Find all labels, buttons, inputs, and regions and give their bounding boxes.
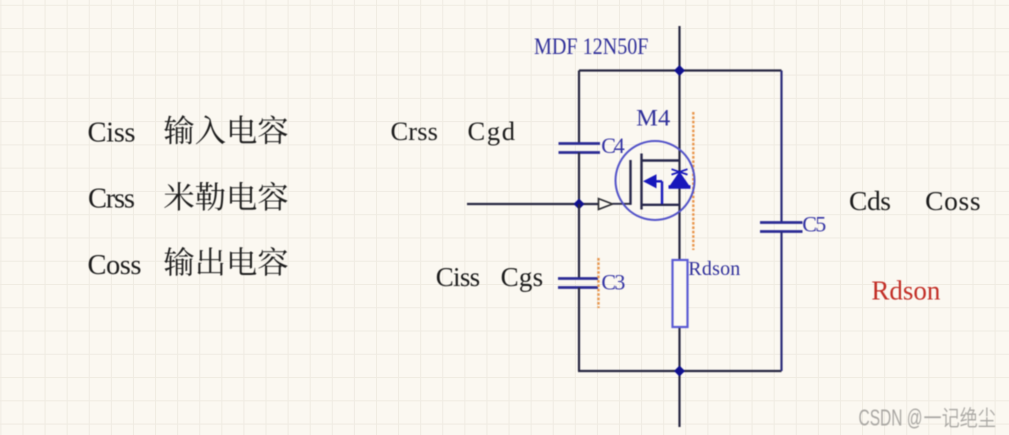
svg-text:Coss: Coss [925,185,981,216]
wire: left branch bottom (C3 to bottom rail) [578,288,580,372]
transistor M4 channel plate [640,154,642,210]
svg-text:Rdson: Rdson [871,275,941,305]
wire: left branch upper (top rail to C4) [578,71,580,145]
resistor Rdson [673,260,688,327]
wire: main drain-source vertical [678,71,680,428]
node: gate junction [574,199,585,210]
gate input arrow (open triangle) [599,199,613,210]
transistor M4 body arrow [643,174,662,204]
svg-text:Crss: Crss [88,184,135,215]
wire: right branch lower (C5 to bottom rail) [780,232,782,372]
svg-text:C3: C3 [601,269,625,294]
svg-text:Coss: Coss [88,250,142,281]
svg-text:Ciss: Ciss [436,262,481,292]
svg-text:Cds: Cds [849,185,891,216]
label 输出电容 (output capacitance) [164,247,287,276]
label 输入电容 (input capacitance) [164,115,287,144]
svg-text:C4: C4 [601,133,625,158]
svg-text:M4: M4 [636,105,671,130]
svg-text:Cgs: Cgs [501,262,543,292]
svg-text:Crss: Crss [391,116,439,146]
capacitor C4 [559,144,601,153]
transistor M4 gate plate [629,160,631,205]
node: top junction [674,65,685,76]
node: bottom junction [674,366,685,377]
wire: top drain stub [678,26,680,71]
wire: top rail [579,69,782,71]
capacitor C3 [558,279,598,288]
wire: left branch middle (C4 to gate node) [578,153,580,205]
wire: bottom rail [578,370,782,372]
transistor M4 circle [616,141,695,220]
transistor M4 drain connection [642,159,681,161]
svg-text:C5: C5 [802,212,826,237]
wire: arrow to gate plate [613,203,632,205]
transistor M4 body diode [669,169,691,187]
svg-text:MDF 12N50F: MDF 12N50F [534,34,649,59]
capacitor C5 [760,223,803,232]
annotation: orange highlight squiggle along MOSFET [692,112,694,250]
label 米勒电容 (Miller capacitance) [164,182,287,211]
svg-text:Rdson: Rdson [688,258,740,280]
svg-text:CSDN @: CSDN @ [859,404,923,430]
wire: right branch upper (top rail to C5) [780,71,782,223]
transistor M4 source connection [642,204,681,206]
wire: gate lead horizontal [467,203,598,205]
watermark 一记绝尘 [924,407,995,427]
svg-text:Ciss: Ciss [88,117,136,148]
wire: left branch lower (gate node to C3) [578,204,580,278]
annotation: orange highlight squiggle along Ciss/Cgs [597,258,599,308]
svg-text:Cgd: Cgd [468,116,516,146]
